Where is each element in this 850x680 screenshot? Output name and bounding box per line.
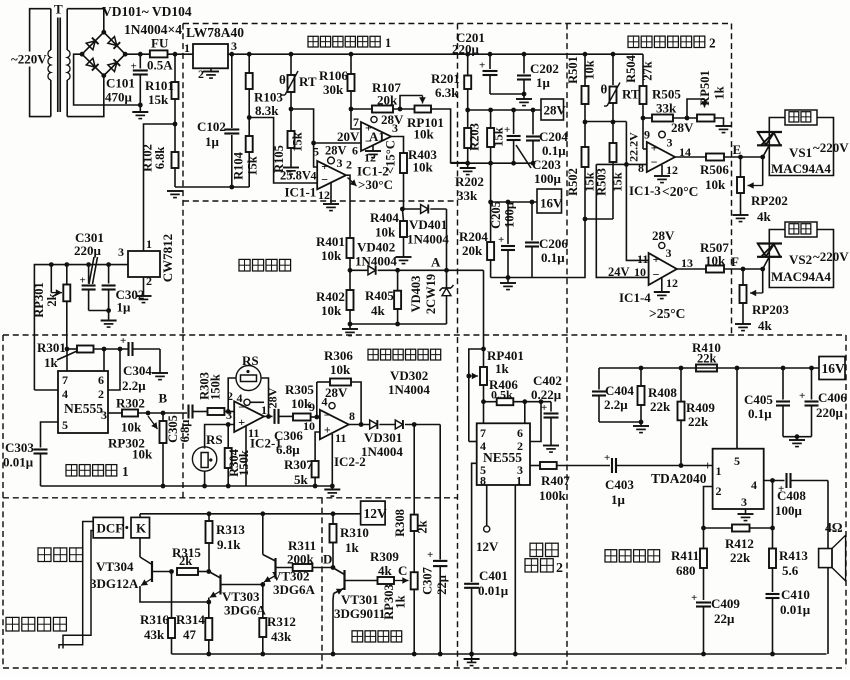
svg-text:VD101~ VD104: VD101~ VD104: [102, 4, 192, 19]
wire node to IC1-1 plus input: [314, 143, 318, 167]
resistor R201: [464, 54, 471, 112]
label R501 10k rotated: [566, 56, 597, 84]
ground below C402: [543, 446, 559, 453]
svg-text:DCF: DCF: [97, 521, 124, 536]
svg-text:R401: R401: [316, 234, 345, 249]
pin 11 label IC2-2: [335, 431, 346, 445]
svg-text:7: 7: [62, 373, 68, 387]
svg-text:1k: 1k: [713, 86, 727, 99]
capacitor C403: [604, 452, 681, 473]
svg-text:+: +: [131, 61, 137, 73]
svg-text:11: 11: [637, 252, 648, 266]
wire IC1-3 output: [675, 156, 706, 158]
svg-text:3DG6A: 3DG6A: [273, 582, 316, 597]
label >25C: [649, 306, 685, 321]
resistor R405: [394, 270, 401, 324]
svg-text:22k: 22k: [730, 550, 751, 565]
power terminal IC1-3 28V: [659, 120, 694, 150]
wire pin5 TDA: [736, 368, 738, 449]
pin 7 label A1: [353, 115, 359, 129]
svg-text:1N4004: 1N4004: [388, 382, 430, 397]
sensor RS humidity: [192, 447, 216, 471]
svg-text:30k: 30k: [323, 82, 344, 97]
wire pin1 NE555-2: [514, 485, 516, 654]
wire pin7 NE555-2: [483, 402, 485, 424]
op-amp IC1-3: [647, 141, 675, 172]
svg-text:R413: R413: [779, 548, 808, 563]
svg-text:5k: 5k: [294, 472, 309, 487]
svg-text:220μ: 220μ: [452, 42, 480, 57]
ground below R105: [283, 168, 299, 175]
wire RT2 node: [585, 103, 626, 124]
capacitor C408: [778, 473, 828, 495]
svg-text:+: +: [427, 549, 433, 561]
svg-text:R101: R101: [145, 78, 174, 93]
svg-text:1μ: 1μ: [611, 492, 626, 507]
bridge rectifier VD101-VD104: [80, 30, 128, 78]
label R304 150k rotated: [227, 448, 251, 477]
pin labels TDA2040: [704, 454, 757, 509]
svg-text:28V: 28V: [266, 387, 280, 408]
svg-text:C102: C102: [197, 119, 226, 134]
label R103 8.3k: [254, 90, 283, 119]
svg-text:R308: R308: [393, 509, 407, 537]
diode VD402: [350, 266, 400, 275]
label C202 1u: [530, 61, 559, 90]
svg-text:R504: R504: [624, 54, 638, 83]
pin 3 label A1: [392, 121, 398, 135]
ground below R404: [396, 257, 412, 264]
potentiometer RP501: [687, 99, 715, 122]
svg-text:0.22μ: 0.22μ: [531, 387, 562, 402]
svg-text:12V: 12V: [364, 506, 388, 521]
resistor R106: [348, 54, 355, 111]
capacitor C401: [464, 584, 479, 662]
wire E to triac gate: [741, 156, 763, 158]
svg-text:R302: R302: [116, 396, 145, 411]
wire R502-R503 junction: [585, 218, 613, 220]
label R402 10k: [316, 289, 345, 318]
capacitor C306: [264, 409, 293, 424]
pin 2 label IC2-1: [227, 389, 233, 403]
label VT303 3DG6A: [222, 589, 267, 618]
wire C301 C302 bottoms: [89, 308, 111, 313]
label 24V pin10: [608, 265, 646, 279]
svg-text:8.3k: 8.3k: [255, 103, 279, 118]
pin 12 label A1: [364, 151, 376, 165]
svg-text:F: F: [731, 254, 739, 269]
svg-text:1k: 1k: [495, 361, 510, 376]
node F: [731, 254, 745, 271]
svg-text:+: +: [704, 458, 711, 473]
ground below R408: [633, 422, 649, 433]
pin 8 label IC1-3: [638, 161, 644, 175]
svg-text:3: 3: [667, 136, 673, 150]
resistor R501: [582, 54, 589, 124]
label ~220V: [11, 52, 47, 67]
svg-text:2: 2: [517, 439, 523, 453]
svg-text:R301: R301: [37, 340, 66, 355]
svg-text:15k: 15k: [291, 132, 305, 152]
ground below C202: [516, 94, 532, 106]
pin 1 label CW7812: [146, 237, 152, 251]
wire pin3 NE555-2: [530, 465, 540, 467]
label R407 100k: [539, 473, 570, 503]
thermistor RT (theta): [279, 54, 317, 95]
ground below IC1-4: [654, 278, 670, 299]
svg-text:16V: 16V: [822, 361, 846, 376]
label R409 22k: [686, 400, 715, 429]
svg-text:5: 5: [62, 418, 68, 432]
svg-text:10: 10: [634, 265, 646, 279]
resistor R402: [347, 270, 354, 326]
svg-text:1N4004: 1N4004: [355, 254, 397, 269]
wire input to TDA pin1: [681, 465, 713, 467]
label R401 10k: [316, 234, 345, 263]
svg-text:R312: R312: [267, 614, 296, 629]
label VS2 ~220V: [789, 249, 849, 267]
label R101 15k: [145, 78, 174, 107]
svg-text:R202: R202: [455, 174, 484, 189]
wire fuse to regulator: [168, 52, 194, 57]
label VD302 1N4004: [388, 368, 430, 397]
label RP401 1k: [487, 348, 524, 376]
capacitor C410: [766, 594, 780, 654]
diode VD302: [395, 420, 440, 429]
svg-text:B: B: [159, 391, 168, 406]
svg-text:6: 6: [517, 426, 523, 440]
svg-text:C402: C402: [533, 373, 562, 388]
label RS bottom: [206, 432, 223, 447]
svg-text:R316: R316: [140, 612, 169, 627]
label VT302 3DG6A: [272, 569, 316, 598]
svg-text:CW7812: CW7812: [160, 234, 175, 282]
capacitor C204: [526, 110, 540, 163]
svg-text:~220V: ~220V: [11, 52, 47, 67]
svg-text:7: 7: [480, 426, 486, 440]
annotation >30C: [348, 177, 394, 192]
resistor R309: [378, 577, 409, 584]
label R306 10k: [324, 348, 353, 377]
label R305 10k 9: [285, 382, 315, 414]
label C201 220u: [452, 30, 485, 57]
label R310 1k: [340, 525, 369, 555]
dashed border: vertical x=183 lower: [182, 335, 184, 498]
svg-text:10k: 10k: [132, 447, 153, 462]
wire main bottom rail: [172, 652, 827, 657]
box ventilate (huanqi): [785, 222, 817, 237]
svg-text:10: 10: [303, 419, 315, 433]
svg-text:R407: R407: [541, 473, 570, 488]
svg-text:5.6: 5.6: [782, 563, 799, 578]
svg-text:VS2: VS2: [789, 252, 812, 267]
resistor R403: [400, 153, 407, 209]
transformer T primary winding: [30, 9, 51, 117]
pin 3 label LW78A40: [231, 39, 237, 53]
svg-text:2.2μ: 2.2μ: [122, 378, 146, 393]
wire 28V rail: [468, 108, 541, 113]
svg-text:MAC94A4: MAC94A4: [771, 161, 831, 176]
speaker 4ohm: [819, 481, 846, 655]
wire R103 to IC1-1 pin4: [249, 118, 317, 184]
label VD301 1N4004: [361, 430, 403, 459]
wire pin5 to C303: [41, 422, 59, 448]
pin 9 label IC1-3: [644, 128, 650, 142]
wire A node line: [398, 268, 484, 273]
svg-text:22k: 22k: [650, 399, 671, 414]
label alarm circuit: [605, 550, 660, 562]
svg-text:10k: 10k: [375, 225, 396, 240]
wire R504 node to IC1-3 plus: [643, 118, 647, 149]
resistor R506: [706, 154, 741, 161]
label R502 15k rotated: [566, 168, 597, 196]
label R308 2k rotated: [393, 509, 430, 537]
ground right of C304: [152, 373, 168, 380]
pin 12 label IC1-1: [318, 188, 330, 202]
label switch circuit: [352, 631, 402, 642]
svg-text:−: −: [651, 155, 658, 169]
label VD401 1N4004: [407, 217, 449, 247]
label C205 100u rotated: [489, 201, 517, 229]
svg-text:3: 3: [226, 408, 232, 422]
svg-text:3DG6A: 3DG6A: [224, 603, 267, 618]
pin 8 label IC2-2: [349, 409, 355, 423]
capacitor C202: [517, 54, 531, 96]
resistor R103: [246, 54, 253, 120]
svg-text:16V: 16V: [540, 196, 563, 211]
svg-text:2: 2: [227, 389, 233, 403]
op-amp A1: [361, 120, 391, 151]
resistor R412: [704, 525, 775, 532]
svg-text:5: 5: [313, 145, 319, 159]
wire IC2-2 output: [349, 424, 370, 426]
box DCF: [93, 517, 123, 538]
power terminal IC1-1: [328, 156, 352, 172]
transistor VT304: [140, 538, 209, 602]
svg-text:5: 5: [734, 454, 740, 468]
svg-text:2: 2: [198, 67, 204, 81]
wire VD401 to A node: [446, 209, 448, 270]
potentiometer RP303: [411, 531, 418, 656]
svg-text:C408: C408: [777, 488, 806, 503]
resistor R307: [312, 461, 319, 486]
label 25.8V pin4: [280, 168, 317, 182]
label R102 6.8k: [141, 144, 168, 172]
svg-text:R501: R501: [566, 56, 580, 84]
svg-text:4: 4: [480, 439, 486, 453]
svg-text:−: −: [324, 408, 331, 422]
svg-text:+: +: [80, 275, 86, 287]
triac VS1 MAC94A4: [757, 132, 782, 145]
ground below A1: [365, 146, 381, 158]
svg-text:3: 3: [101, 408, 107, 422]
svg-text:3: 3: [741, 495, 747, 509]
svg-text:C410: C410: [781, 587, 810, 602]
label title temp-detect-1: [308, 36, 391, 50]
ground below R402: [342, 324, 358, 336]
svg-text:C202: C202: [530, 61, 559, 76]
capacitor C304: [120, 335, 160, 373]
svg-text:R307: R307: [284, 457, 313, 472]
svg-text:~220V: ~220V: [813, 249, 849, 264]
resistor R306 feedback: [317, 379, 364, 427]
svg-text:0.1μ: 0.1μ: [542, 143, 566, 158]
svg-text:RS: RS: [242, 353, 259, 368]
label drain circuit: [6, 617, 66, 631]
box 16V alarm: [819, 357, 845, 380]
diode VD301: [370, 420, 396, 429]
resistor R404: [400, 209, 407, 257]
svg-text:1k: 1k: [44, 355, 59, 370]
wire bridge minus to ground rail: [74, 54, 141, 105]
pin 2 label CW7812: [146, 274, 152, 288]
dashed border: temperature-detect blocks top: [183, 23, 732, 25]
label C406 220u: [816, 390, 847, 420]
svg-text:28V: 28V: [325, 385, 348, 400]
resistor R312: [259, 618, 266, 656]
svg-text:100k: 100k: [539, 488, 567, 503]
wire pin4 output: [764, 480, 785, 482]
ground LW78A40 pin2: [203, 68, 219, 78]
wire C201-C202 join: [490, 93, 524, 95]
wire VS1 gate: [760, 146, 769, 160]
label R303 150k rotated: [198, 372, 223, 400]
svg-text:24V: 24V: [608, 265, 630, 279]
wire A node riser: [481, 270, 486, 351]
drain pipe: [59, 522, 93, 649]
label VD402 1N4004: [355, 240, 397, 269]
svg-text:RP203: RP203: [752, 302, 789, 317]
pin 11 label IC2-1: [248, 426, 259, 440]
wire VS2 load loop: [769, 230, 833, 288]
label R313 9.1k: [216, 522, 245, 552]
transformer T secondary winding: [67, 9, 104, 117]
label R309 4k: [370, 549, 399, 578]
resistor R507: [706, 266, 743, 273]
svg-text:3: 3: [666, 246, 672, 260]
wire 16V rail riser: [490, 163, 492, 202]
node A label: [431, 255, 441, 270]
wire IC1-4 output: [677, 268, 706, 270]
svg-text:2k: 2k: [179, 554, 192, 568]
svg-text:12: 12: [666, 276, 678, 290]
box 16V: [537, 189, 563, 213]
wire IC2-1 ground: [245, 426, 247, 487]
ground below R202: [460, 163, 476, 174]
label OR-gate circuit: [239, 259, 291, 271]
svg-text:15k: 15k: [611, 172, 625, 192]
dashed border: vertical x=322 (switch block): [321, 498, 323, 668]
label C307 22u rotated: [421, 567, 450, 595]
resistor R203: [487, 110, 494, 163]
transformer T core: [58, 18, 60, 113]
svg-text:R106: R106: [319, 68, 348, 83]
wire node to A1 inverting input: [291, 109, 361, 145]
label R301 1k: [37, 340, 77, 370]
svg-text:0.5A: 0.5A: [147, 58, 173, 73]
svg-text:4k: 4k: [378, 563, 393, 578]
svg-text:+: +: [504, 124, 510, 136]
svg-text:FU: FU: [151, 36, 169, 51]
pin 3 label IC2-1: [226, 408, 232, 422]
label 20V: [337, 129, 360, 144]
svg-text:R204: R204: [459, 229, 488, 244]
regulator U-LW78A40: [186, 25, 244, 68]
regulator CW7812: [128, 251, 160, 277]
svg-text:3DG12A: 3DG12A: [90, 576, 139, 591]
svg-text:1μ: 1μ: [117, 300, 132, 315]
wire IC1-3 minus input: [596, 164, 648, 277]
svg-text:T: T: [54, 2, 63, 17]
svg-text:100μ: 100μ: [503, 202, 517, 228]
label CW7812 rotated: [160, 234, 175, 282]
label R202 33k: [455, 174, 484, 203]
svg-text:1: 1: [184, 41, 190, 55]
resistor R314: [205, 602, 212, 656]
capacitor C405: [776, 368, 790, 437]
capacitor C201: [479, 54, 498, 94]
box K: [131, 517, 150, 538]
wire pin6 NE555-2: [524, 402, 526, 424]
resistor R311: [293, 564, 333, 571]
pin 4 circle IC2-2: [322, 395, 336, 409]
svg-text:IC1-1: IC1-1: [285, 185, 317, 200]
label R302 10k: [116, 396, 145, 435]
svg-text:C406: C406: [818, 390, 847, 405]
wire pin2: [108, 349, 120, 390]
wire 12V rail from CW7812 pin3: [34, 262, 128, 390]
resistor R107: [351, 106, 415, 113]
label RP303 1k rotated: [382, 584, 408, 619]
label 4 ohm: [825, 520, 843, 535]
label R203 15k rotated: [468, 123, 506, 151]
ground below C101: [132, 112, 148, 119]
label R403 10k: [408, 147, 437, 175]
label C409 22u: [711, 596, 740, 626]
svg-text:10k: 10k: [413, 160, 434, 175]
svg-text:6.8μ: 6.8μ: [178, 420, 192, 443]
capacitor C404: [592, 368, 643, 424]
resistor R407: [540, 462, 610, 469]
svg-text:NE555: NE555: [64, 401, 103, 416]
wire pin6: [103, 349, 105, 371]
label 28V IC2-2: [325, 385, 348, 400]
resistor R502: [582, 122, 589, 221]
svg-text:2: 2: [346, 158, 352, 172]
label 22.2V rotated: [627, 132, 641, 162]
svg-text:R203: R203: [468, 123, 482, 151]
svg-text:1: 1: [716, 464, 722, 478]
label R405 4k: [365, 288, 394, 318]
svg-text:R411: R411: [671, 548, 699, 563]
node E: [733, 142, 743, 159]
label RP302 10k: [108, 436, 153, 462]
svg-text:20k: 20k: [462, 243, 483, 258]
label C403 1u: [605, 477, 634, 507]
wire OR-gate ground rail: [350, 322, 447, 327]
svg-text:R505: R505: [652, 87, 681, 102]
resistor R413: [769, 528, 776, 592]
node D: [323, 552, 335, 570]
pin 5 label IC1-1: [313, 145, 319, 159]
svg-text:K: K: [136, 521, 147, 536]
wire junction to 24V rail: [532, 219, 585, 278]
svg-text:22μ: 22μ: [435, 575, 449, 595]
label R314 47: [176, 612, 205, 642]
resistor R504: [640, 54, 647, 120]
label C304 2.2u: [122, 363, 152, 393]
svg-text:28V: 28V: [652, 228, 675, 243]
